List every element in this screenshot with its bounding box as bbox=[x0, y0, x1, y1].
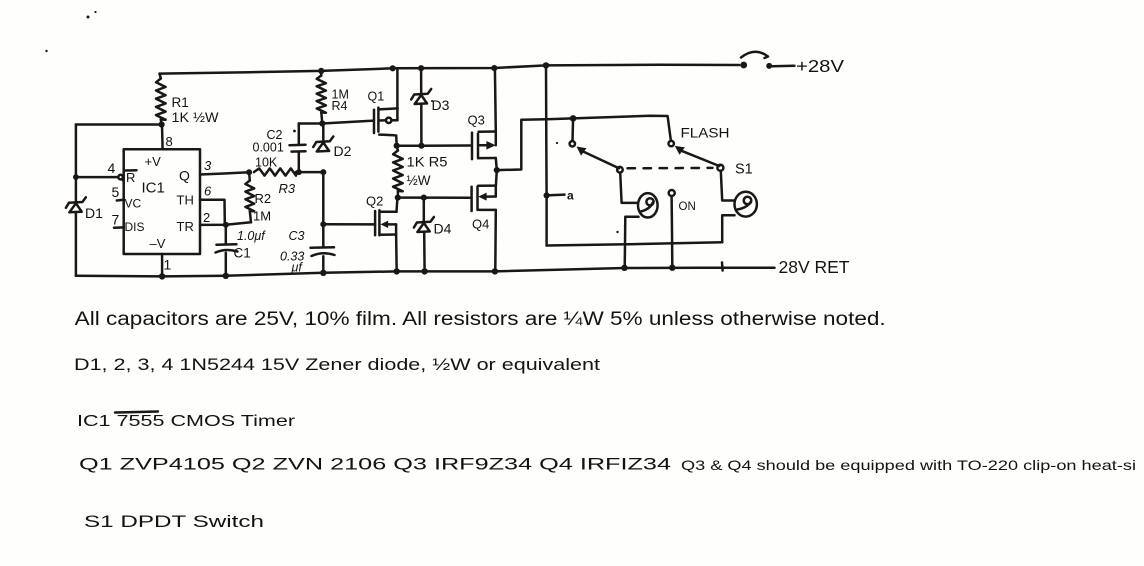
wire pin 3 output bbox=[200, 172, 249, 174]
arrow blade left tip bbox=[577, 147, 587, 156]
svg-text:1K ½W: 1K ½W bbox=[172, 110, 219, 125]
wire C2 to R4 bottom to Q1 gate bbox=[299, 121, 374, 124]
svg-text:4: 4 bbox=[108, 160, 116, 176]
svg-text:Q1: Q1 bbox=[368, 90, 385, 104]
wire D4 chain bbox=[423, 198, 426, 221]
wire D3 chain bbox=[420, 68, 423, 93]
wire pin 1 bbox=[161, 254, 164, 276]
node R5 bottom junction bbox=[395, 195, 401, 201]
node D3 top on rail bbox=[418, 65, 424, 71]
wire right lamp return bbox=[722, 215, 734, 242]
svg-text:1M: 1M bbox=[253, 209, 271, 224]
wire blade right bbox=[680, 150, 719, 166]
wire lamp loop bottom bbox=[547, 242, 723, 245]
node ON on rail bbox=[669, 265, 675, 271]
node Q2 source on rail bbox=[394, 268, 400, 274]
wire D2 node down to Q2 gate node bbox=[322, 172, 325, 224]
svg-text:R4: R4 bbox=[332, 99, 348, 113]
capacitor C3 bbox=[311, 246, 335, 249]
wire switch top link bbox=[573, 116, 671, 140]
lamp DS2 right bbox=[735, 192, 757, 217]
svg-text:+28V: +28V bbox=[796, 56, 844, 76]
capacitor C1 bbox=[225, 225, 228, 244]
node left lamp on rail bbox=[621, 265, 627, 271]
node D3 bottom junction bbox=[418, 143, 424, 149]
wire pin 6 TH bbox=[200, 200, 225, 225]
svg-text:C1: C1 bbox=[234, 246, 251, 261]
svg-text:FLASH: FLASH bbox=[681, 126, 730, 141]
node Q3 source junction bbox=[494, 167, 500, 173]
node pin3-R3-R2 junction bbox=[246, 169, 252, 175]
svg-text:1K R5: 1K R5 bbox=[407, 155, 448, 170]
svg-text:Q1 ZVP4105 Q2 ZVN 2106: Q1 ZVP4105 Q2 ZVN 2106 Q3 IRF9Z34 Q4 IRF… bbox=[79, 456, 671, 474]
contact S1 left common bbox=[617, 167, 623, 173]
wire R3 node to D2 node bbox=[299, 171, 324, 174]
node R4 top on rail bbox=[318, 68, 324, 74]
node Q2 gate junction bbox=[320, 221, 326, 227]
wire ON contact down bbox=[670, 196, 673, 268]
svg-text:28V RET: 28V RET bbox=[779, 257, 850, 277]
svg-text:+V: +V bbox=[145, 154, 162, 169]
svg-text:10K: 10K bbox=[255, 156, 278, 170]
arrow blade right tip bbox=[675, 146, 685, 155]
speck marks bbox=[87, 16, 90, 19]
node R4 bottom junction bbox=[319, 120, 325, 126]
svg-text:0.001: 0.001 bbox=[253, 141, 284, 155]
svg-text:1: 1 bbox=[164, 257, 172, 273]
node Q4 source on rail bbox=[492, 268, 498, 274]
contact S1 left flash bbox=[571, 118, 574, 140]
svg-text:3: 3 bbox=[204, 158, 212, 173]
node +28V rail to left branch bbox=[543, 62, 549, 68]
svg-text:D1: D1 bbox=[85, 205, 103, 221]
resistor R1 bbox=[160, 74, 161, 79]
node C1 on rail bbox=[223, 273, 229, 279]
svg-text:R: R bbox=[126, 170, 135, 185]
svg-text:TR: TR bbox=[177, 219, 194, 234]
wire pin 4 with inverter circle bbox=[76, 176, 118, 179]
svg-text:S1: S1 bbox=[735, 162, 753, 178]
wire D2 top stub bbox=[322, 124, 325, 141]
svg-text:μf: μf bbox=[291, 261, 304, 275]
node pin1 on rail bbox=[159, 273, 165, 279]
svg-text:5: 5 bbox=[112, 184, 120, 200]
svg-text:C3: C3 bbox=[289, 229, 305, 243]
svg-text:D4: D4 bbox=[434, 221, 452, 237]
transistor Q3 bbox=[471, 133, 474, 160]
contact ON bbox=[669, 190, 675, 196]
op-amp U1 IC1 7555 timer box bbox=[124, 149, 200, 254]
svg-text:ON: ON bbox=[679, 201, 696, 213]
svg-text:Q: Q bbox=[179, 168, 190, 184]
contact S1 right flash bbox=[669, 141, 674, 146]
transistor Q4 bbox=[470, 187, 473, 211]
resistor R3 bbox=[254, 168, 296, 175]
node +28V supply gap bbox=[740, 62, 747, 69]
wire left branch vertical bbox=[545, 65, 548, 245]
node R1 bottom junction bbox=[159, 121, 165, 127]
wire dashed coupling bbox=[628, 167, 713, 170]
svg-text:2: 2 bbox=[203, 210, 210, 225]
wire R1-bottom to left branch bbox=[76, 123, 162, 126]
wire right common to lamp bbox=[721, 171, 735, 201]
transistor Q2 bbox=[374, 211, 377, 235]
wire blade left bbox=[582, 151, 620, 168]
wire Q2 gate node to C3 bbox=[322, 224, 325, 246]
svg-text:S1 DPDT Switch: S1 DPDT Switch bbox=[84, 513, 264, 531]
svg-text:All capacitors are 25V, 10% fi: All capacitors are 25V, 10% film. All re… bbox=[75, 309, 886, 330]
resistor R4 bbox=[320, 71, 323, 76]
wire Q3 source to Q4 drain bbox=[495, 170, 498, 186]
svg-text:8: 8 bbox=[166, 134, 173, 149]
svg-text:IC1: IC1 bbox=[142, 180, 165, 197]
contact S1 right common bbox=[717, 165, 723, 171]
lamp DS1 left bbox=[638, 193, 658, 217]
wire pin 2 TR to R2 bbox=[200, 222, 251, 225]
svg-text:7: 7 bbox=[112, 212, 120, 228]
svg-text:DIS: DIS bbox=[125, 220, 145, 234]
transistor Q1 bbox=[373, 110, 376, 133]
node pin2-pin6-C1 junction bbox=[223, 222, 229, 228]
node R3-C2 junction bbox=[296, 169, 302, 175]
svg-text:Q3: Q3 bbox=[468, 113, 485, 128]
svg-text:R1: R1 bbox=[172, 95, 189, 110]
svg-text:VC: VC bbox=[125, 197, 142, 211]
resistor R2 bbox=[248, 172, 251, 180]
tick on RET rail bbox=[721, 263, 724, 271]
zener D4 bbox=[414, 217, 434, 228]
wire Q3-source node to switch bbox=[497, 118, 573, 170]
wire R5 bottom node to Q4 gate bbox=[398, 196, 470, 199]
wire pin 8 bbox=[161, 125, 164, 150]
wire left common to lamp bbox=[620, 173, 638, 203]
node Q3 top on rail bbox=[491, 65, 497, 71]
svg-text:R2: R2 bbox=[255, 191, 272, 206]
wire a stub bbox=[547, 193, 565, 196]
svg-text:Q4: Q4 bbox=[472, 217, 489, 232]
node D4 on rail bbox=[421, 268, 427, 274]
capacitor C2 bbox=[298, 153, 301, 172]
node D2 bottom junction bbox=[320, 169, 326, 175]
node Q1 top on rail bbox=[390, 65, 396, 71]
wire left lamp return bbox=[625, 217, 639, 268]
svg-text:TH: TH bbox=[177, 193, 194, 208]
node R5 top junction bbox=[394, 143, 400, 149]
wire pin 7 stub bbox=[114, 226, 124, 229]
svg-text:IC1 7555 CMOS Timer: IC1 7555 CMOS Timer bbox=[77, 413, 296, 430]
svg-text:Q2: Q2 bbox=[366, 194, 383, 209]
svg-text:D2: D2 bbox=[334, 143, 352, 159]
svg-text:1.0μf: 1.0μf bbox=[237, 229, 266, 243]
wire left vertical branch bbox=[75, 125, 78, 202]
svg-text:D3: D3 bbox=[432, 97, 450, 113]
svg-text:D1, 2, 3, 4 1N5244 15V Zen: D1, 2, 3, 4 1N5244 15V Zener diode, ½W o… bbox=[74, 355, 600, 374]
node pin4 branch junction bbox=[73, 174, 79, 180]
wire pin 5 stub bbox=[117, 198, 124, 201]
wire bottom 28V RET rail bbox=[76, 268, 775, 277]
zener D1 bbox=[66, 197, 86, 208]
node switch feed junction bbox=[570, 115, 577, 122]
node D4 top junction bbox=[421, 195, 427, 201]
zener D2 bbox=[313, 137, 333, 148]
zener D3 bbox=[411, 89, 431, 100]
svg-text:R3: R3 bbox=[279, 181, 296, 196]
wire Q2 gate bbox=[323, 223, 375, 226]
svg-text:½W: ½W bbox=[407, 173, 431, 188]
resistor R5 bbox=[397, 146, 398, 151]
svg-text:–V: –V bbox=[150, 236, 166, 251]
svg-text:6: 6 bbox=[204, 184, 212, 199]
node a-stub junction bbox=[544, 192, 550, 198]
wire R5 top node to Q3 gate bbox=[397, 144, 471, 147]
node C3 on rail bbox=[320, 270, 326, 276]
wire top +28V rail bbox=[160, 65, 740, 74]
svg-text:Q3 & Q4 should be equipped wit: Q3 & Q4 should be equipped with TO-220 c… bbox=[681, 457, 1136, 473]
svg-text:a: a bbox=[567, 189, 574, 203]
